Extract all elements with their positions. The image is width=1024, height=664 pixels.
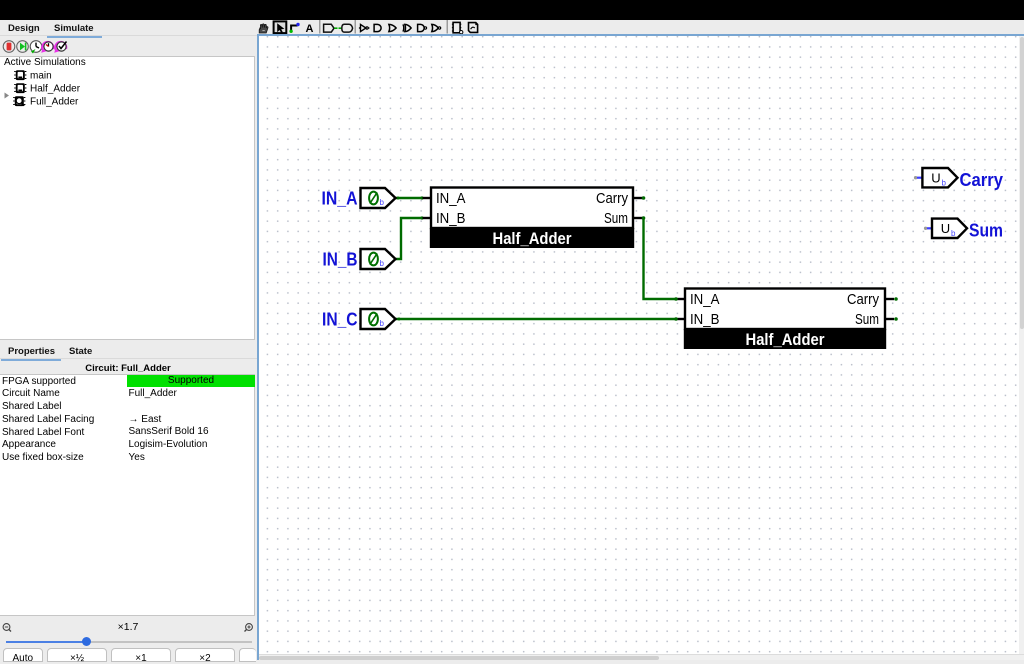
- node U2.IN_A: [674, 297, 678, 301]
- svg-text:Sum: Sum: [855, 312, 879, 328]
- subcircuit U2 Half_Adder: [684, 289, 886, 350]
- wire tool: [291, 26, 297, 32]
- input pin tool: [324, 24, 338, 32]
- green Supported cell: [127, 375, 255, 387]
- zoom area: [0, 620, 256, 635]
- separator: [447, 20, 448, 34]
- top black title bar: [0, 0, 1024, 20]
- output pin Carry: [914, 168, 958, 187]
- horizontal scrollbar: [259, 654, 1024, 660]
- node U1.Sum: [642, 216, 646, 220]
- label IN_A: [322, 187, 358, 208]
- output pin tool: [339, 24, 353, 32]
- svg-text:A: A: [306, 23, 314, 35]
- pin stub U2.Carry: [885, 298, 895, 300]
- input pin IN_C: [361, 309, 396, 329]
- node U2.Carry: [894, 297, 898, 301]
- slider: [6, 641, 252, 643]
- blue underline of selected Simulate tab: [47, 36, 102, 38]
- svg-text:Carry: Carry: [847, 292, 880, 308]
- pin stub U1.Sum: [633, 217, 643, 219]
- subcircuit U1 Half_Adder: [430, 188, 634, 249]
- Active Simulations tree panel: [0, 56, 255, 340]
- Circuit header: [0, 363, 256, 374]
- separator: [355, 20, 356, 34]
- wire W1: IN_A pin to U1.IN_A: [396, 196, 424, 199]
- Properties / State tabs: [8, 346, 55, 357]
- NAND gate: [418, 24, 427, 31]
- circuit svg: [258, 36, 1024, 654]
- chip icon: main: [14, 70, 26, 80]
- svg-text:Sum: Sum: [604, 211, 628, 227]
- simulation control icons row: [0, 38, 258, 55]
- separator: [319, 20, 320, 34]
- svg-text:IN_B: IN_B: [436, 211, 466, 227]
- node U1.Carry: [642, 196, 646, 200]
- wire W4: U1.Sum to U2.IN_A: [644, 218, 677, 299]
- pin stub U1.IN_A: [423, 197, 432, 199]
- node U2.Sum: [894, 317, 898, 321]
- svg-text:Half_Adder: Half_Adder: [30, 83, 81, 94]
- pin stub U2.IN_A: [676, 298, 685, 300]
- svg-text:Sum: Sum: [969, 220, 1003, 241]
- input pin IN_B: [361, 249, 396, 269]
- left tab row: Design / Simulate: [0, 20, 258, 36]
- svg-text:Carry: Carry: [596, 191, 629, 207]
- svg-text:b: b: [951, 229, 956, 238]
- svg-text:b: b: [380, 259, 385, 268]
- pin stub U2.IN_B: [676, 318, 685, 320]
- svg-text:b: b: [942, 178, 947, 187]
- svg-text:IN_B: IN_B: [323, 248, 358, 269]
- appearance edit icon: [469, 23, 478, 33]
- add circuit icon: [452, 22, 463, 34]
- NOR gate: [432, 24, 441, 31]
- svg-text:U: U: [941, 221, 950, 236]
- node U2.IN_B: [674, 317, 678, 321]
- pin stub U1.Carry: [633, 197, 643, 199]
- zoom buttons: [3, 648, 43, 662]
- XOR gate: [403, 24, 411, 31]
- svg-text:Half_Adder: Half_Adder: [746, 331, 826, 349]
- svg-text:IN_A: IN_A: [436, 191, 466, 207]
- chip icon: Half_Adder: [14, 83, 26, 93]
- expand arrow: [5, 93, 10, 99]
- chip icon: Full_Adder (with magnifier): [13, 96, 25, 106]
- AND gate: [374, 24, 381, 31]
- wire W3: IN_C pin to U2.IN_B: [396, 318, 677, 321]
- properties table: [0, 374, 255, 616]
- OR gate: [389, 24, 396, 31]
- svg-text:b: b: [380, 319, 385, 328]
- vertical scrollbar: [1019, 36, 1024, 654]
- toolbar row icons: [255, 17, 490, 37]
- svg-text:Half_Adder: Half_Adder: [493, 230, 573, 248]
- label Sum: [969, 220, 1003, 241]
- pin stub U2.Sum: [885, 318, 895, 320]
- svg-text:b: b: [380, 198, 385, 207]
- svg-text:IN_A: IN_A: [690, 292, 720, 308]
- input pin IN_A: [361, 188, 396, 208]
- svg-text:IN_B: IN_B: [690, 312, 720, 328]
- canvas with blue focus border: [257, 34, 1024, 660]
- wire W2: IN_B pin to U1.IN_B: [396, 216, 424, 259]
- output pin Sum: [924, 219, 967, 238]
- label Carry: [960, 169, 1004, 190]
- svg-text:U: U: [931, 170, 940, 185]
- svg-text:IN_C: IN_C: [322, 308, 358, 329]
- svg-text:Full_Adder: Full_Adder: [30, 96, 79, 107]
- NOT gate: [359, 24, 370, 31]
- label IN_B: [323, 248, 358, 269]
- svg-text:IN_A: IN_A: [322, 187, 358, 208]
- poke (hand) tool: [259, 24, 268, 33]
- edit (select) tool selected box: [274, 21, 287, 33]
- svg-text:Carry: Carry: [960, 169, 1004, 190]
- label IN_C: [322, 308, 358, 329]
- pin stub U1.IN_B: [423, 217, 432, 219]
- grid dots: [259, 36, 1019, 654]
- svg-text:main: main: [30, 70, 52, 81]
